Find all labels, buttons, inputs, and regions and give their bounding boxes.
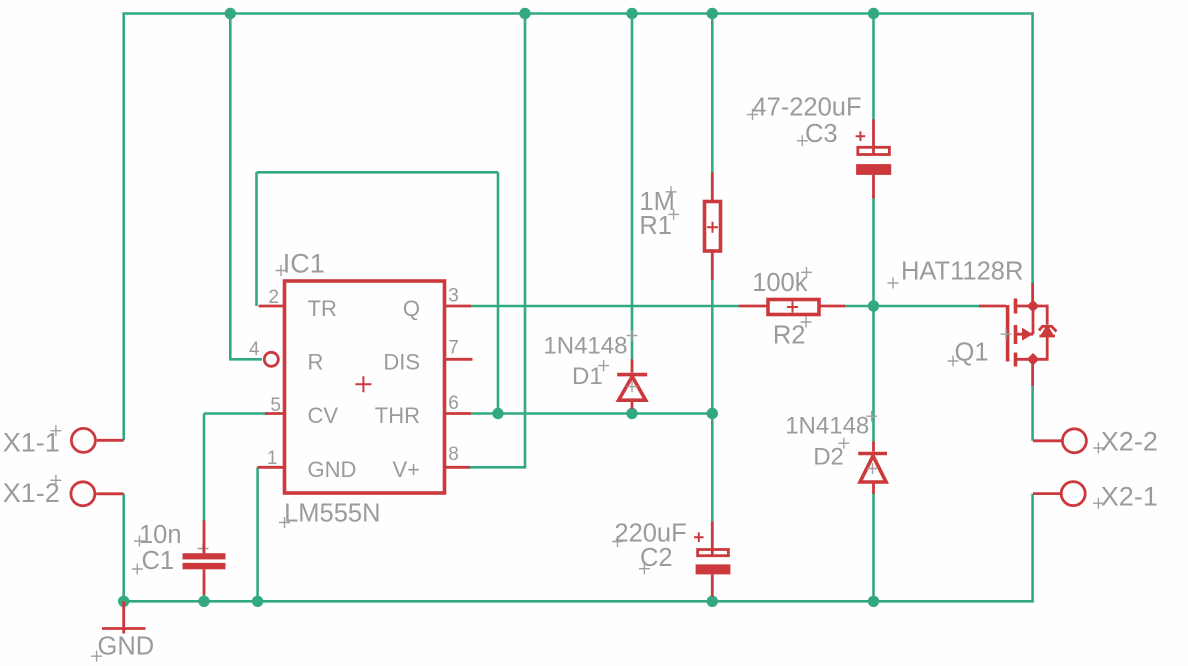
label HAT1128R origin cross (888, 278, 899, 289)
label 1N4148 D1 origin cross (627, 330, 638, 341)
wire X2-1 down to ground rail (1031, 494, 1034, 603)
connector X1-2 pin (96, 492, 123, 495)
diode D2 bottom pin (872, 482, 875, 494)
svg-text:THR: THR (375, 403, 420, 428)
svg-text:R1: R1 (639, 212, 672, 240)
transistor Q1 channel segment top (1014, 299, 1018, 314)
svg-text:GND: GND (308, 457, 357, 482)
node junction THR R1 (707, 408, 718, 419)
resistor R1 top pin (711, 173, 714, 200)
diode D1 cathode bar (617, 373, 647, 377)
connector X1-1 circle (71, 428, 95, 452)
node junction ground rail x=124 (118, 596, 129, 607)
svg-text:4: 4 (249, 339, 260, 360)
svg-text:V+: V+ (392, 457, 420, 482)
node junction ground rail x=873 (868, 596, 879, 607)
svg-text:X2-1: X2-1 (1101, 482, 1158, 512)
op IC1 body LM555N (285, 281, 445, 493)
transistor Q1 channel segment bottom (1014, 353, 1018, 367)
wire D1 anode to THR net (631, 408, 634, 414)
diode D1 top pin (631, 360, 634, 373)
node junction top rail x=873 (868, 8, 879, 19)
label GND origin cross (91, 651, 102, 662)
wire top rail to R1 (711, 14, 714, 175)
svg-text:8: 8 (448, 444, 459, 465)
wire IC1 pin3 Q to R2 (471, 305, 740, 308)
label Q1 origin cross (948, 356, 959, 367)
transistor Q1 source pin down (1031, 359, 1034, 386)
capacitor C1 top plate (183, 553, 226, 559)
wire Q1 source to X2-2 (1031, 385, 1034, 441)
transistor Q1 bulk arrow (1022, 328, 1033, 341)
node junction THR feedback x=498 (492, 408, 503, 419)
label D1 origin cross (598, 360, 609, 371)
svg-text:C1: C1 (142, 547, 175, 575)
wire top rail to IC1 pin8 V+ (470, 14, 525, 468)
transistor Q1 bulk vertical (1032, 306, 1035, 334)
diode D1 origin cross (627, 381, 638, 392)
connector X2-2 pin (1033, 439, 1062, 442)
svg-text:100k: 100k (752, 269, 808, 297)
resistor R1 origin cross (707, 222, 718, 233)
wire R2 node down to D2 cathode (872, 306, 875, 442)
op IC1 pin8 stub (446, 466, 470, 469)
label R1 origin cross (668, 209, 679, 220)
diode D2 triangle (860, 456, 886, 482)
op IC1 pin4 bubble (264, 352, 278, 366)
node junction top rail x=712 (707, 8, 718, 19)
label IC1 origin cross (276, 265, 287, 276)
svg-text:2: 2 (268, 287, 279, 308)
wire X1-2 down to ground rail (122, 494, 125, 602)
diode D1 bottom pin (631, 400, 634, 409)
svg-text:1N4148: 1N4148 (785, 412, 869, 439)
op IC1 pin3 stub (446, 305, 471, 308)
svg-text:1: 1 (267, 448, 278, 469)
label X2-2 origin cross (1093, 443, 1104, 454)
capacitor C2 top plate outline (698, 550, 729, 556)
label 10n origin cross (134, 536, 145, 547)
capacitor C3 top plate outline (858, 147, 890, 154)
wire R2 to Q1 gate (844, 305, 874, 308)
svg-text:47-220uF: 47-220uF (752, 94, 861, 122)
transistor Q1 body diode cathode mark (1039, 326, 1057, 331)
svg-text:Q: Q (403, 296, 420, 321)
svg-text:D1: D1 (572, 363, 603, 390)
capacitor C3 bottom plate (856, 164, 891, 175)
svg-text:3: 3 (448, 286, 459, 307)
diode D2 cathode bar (858, 452, 887, 456)
label C1 origin cross (132, 564, 143, 575)
ground symbol bar (102, 627, 146, 630)
transistor Q1 gate pin (979, 305, 1006, 308)
connector X2-1 pin (1033, 492, 1060, 495)
wire gate net (874, 305, 982, 308)
resistor R2 origin cross (787, 302, 798, 313)
diode D1 triangle (619, 377, 646, 401)
svg-text:X1-1: X1-1 (3, 428, 60, 458)
op IC1 pin6 stub (446, 412, 471, 415)
ground symbol stub (122, 601, 125, 633)
resistor R1 body (705, 202, 721, 252)
svg-text:GND: GND (98, 633, 155, 661)
svg-text:7: 7 (448, 337, 459, 358)
svg-text:IC1: IC1 (283, 248, 325, 278)
capacitor C2 bottom plate (696, 564, 731, 574)
diode D2 top pin (872, 441, 875, 451)
wire C3 to R2 node (872, 197, 875, 306)
transistor Q1 source link (1016, 358, 1048, 361)
capacitor C2 top pin (711, 522, 714, 558)
transistor Q1 body diode base bar (1039, 335, 1055, 338)
svg-text:DIS: DIS (383, 349, 420, 374)
label C3 origin cross (797, 135, 808, 146)
diode D2 origin cross (867, 463, 878, 474)
node junction ground rail x=204 (198, 596, 209, 607)
node junction THR D1 (626, 408, 637, 419)
label 1N4148 D2 origin cross (866, 411, 877, 422)
resistor R2 left pin (739, 305, 767, 308)
wire D2 anode to ground rail (872, 493, 875, 602)
capacitor C1 bottom plate (183, 563, 226, 569)
wire feedback top horizontal (257, 171, 499, 174)
label 47-220uF origin cross (747, 109, 758, 120)
capacitor C1 top pin (203, 521, 206, 554)
transistor Q1 gate bar (1006, 305, 1010, 362)
svg-text:X1-2: X1-2 (3, 478, 60, 508)
connector X2-2 circle (1062, 429, 1086, 453)
resistor R2 body (768, 300, 819, 315)
label 1M origin cross (666, 186, 677, 197)
wire THR net down to C2 (711, 414, 714, 523)
capacitor C3 bottom pin (872, 175, 875, 198)
capacitor C2 bottom pin (711, 574, 714, 597)
wire left vertical VCC to X1-1 (122, 12, 125, 440)
resistor R1 bottom pin (711, 253, 714, 281)
svg-text:CV: CV (308, 403, 339, 428)
svg-text:TR: TR (308, 296, 337, 321)
op IC1 pin5 stub (265, 412, 283, 415)
wire pin5 CV horizontal (204, 412, 267, 415)
svg-text:5: 5 (270, 395, 281, 416)
label C2 origin cross (639, 563, 650, 574)
svg-text:1N4148: 1N4148 (543, 333, 627, 360)
node junction top rail x=524 (519, 8, 530, 19)
node junction ground rail x=712 (707, 596, 718, 607)
node junction top rail x=631 (626, 8, 637, 19)
wire THR net horizontal (471, 412, 712, 415)
wire bottom ground rail (124, 600, 1033, 603)
wire top rail to D1 cathode (631, 14, 634, 362)
svg-text:6: 6 (448, 393, 459, 414)
connector X1-2 circle (71, 482, 95, 506)
connector X2-1 circle (1061, 482, 1085, 506)
label 100k origin cross (801, 267, 812, 278)
transistor Q1 body diode branch top (1046, 305, 1049, 325)
svg-text:LM555N: LM555N (284, 500, 380, 528)
op IC1 origin cross (355, 376, 371, 392)
capacitor C1 bottom pin (203, 569, 206, 595)
wire feedback right vertical to THR (497, 172, 500, 413)
svg-text:R: R (308, 349, 324, 374)
op IC1 pin7 stub (446, 358, 473, 361)
svg-text:D2: D2 (813, 443, 844, 470)
transistor Q1 body diode triangle (1040, 324, 1054, 335)
transistor Q1 drain junction (1027, 300, 1040, 313)
wire R1 to THR net (711, 279, 714, 414)
label X1-2 origin cross (50, 475, 61, 486)
wire top rail to C3 (872, 14, 875, 121)
transistor Q1 bulk link (1016, 333, 1034, 336)
wire CV down to C1 (203, 414, 206, 523)
op IC1 pin2 stub (259, 305, 283, 308)
label LM555N origin cross (279, 517, 290, 528)
node junction top rail x=230 (225, 8, 236, 19)
wire top rail (124, 12, 1033, 15)
op IC1 pin1 stub (258, 466, 284, 469)
capacitor C3 top pin (872, 119, 875, 155)
svg-text:HAT1128R: HAT1128R (901, 258, 1023, 286)
svg-text:C3: C3 (805, 120, 838, 148)
wire right vertical top to Q1 drain (1031, 12, 1034, 284)
connector X1-1 pin (97, 439, 124, 442)
transistor Q1 drain pin up (1031, 283, 1034, 306)
capacitor C1 origin cross (198, 543, 209, 554)
wire C1 to ground rail (203, 593, 206, 601)
capacitor C3 plus mark (856, 131, 866, 141)
capacitor C2 plus mark (694, 532, 704, 542)
transistor Q1 origin cross (1001, 329, 1012, 340)
svg-text:R2: R2 (773, 322, 806, 350)
resistor R2 right pin (821, 305, 846, 308)
wire feedback left vertical to pin2 TR (255, 172, 258, 306)
svg-text:Q1: Q1 (955, 338, 989, 366)
label R2 origin cross (801, 317, 812, 328)
wire top rail to IC1 pin4 R (230, 14, 262, 360)
label X2-1 origin cross (1093, 498, 1104, 509)
svg-text:X2-2: X2-2 (1101, 426, 1158, 456)
node junction gate R2 (868, 300, 879, 311)
svg-text:10n: 10n (139, 521, 182, 549)
transistor Q1 channel segment middle (1014, 325, 1018, 344)
label D2 origin cross (838, 438, 849, 449)
transistor Q1 drain link (1016, 305, 1048, 308)
label X1-1 origin cross (50, 425, 61, 436)
transistor Q1 body diode branch bottom (1046, 336, 1049, 361)
wire IC1 pin1 GND down to ground rail (256, 467, 259, 601)
label 220uF origin cross (612, 536, 623, 547)
transistor Q1 source junction (1027, 353, 1040, 366)
node junction ground rail x=258 (252, 596, 263, 607)
